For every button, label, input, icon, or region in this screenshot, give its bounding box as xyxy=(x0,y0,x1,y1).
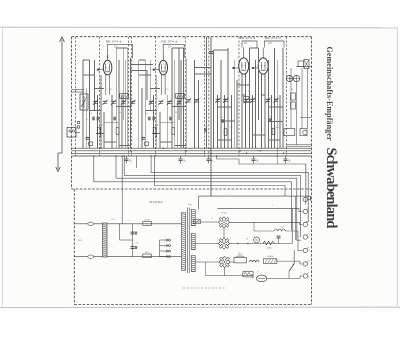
electrolytic capacitor xyxy=(254,237,260,243)
wire antenna jog xyxy=(58,152,62,154)
stage box dashed edge xyxy=(131,37,133,156)
svg-text:C=: C= xyxy=(244,41,248,45)
junction dots xyxy=(93,155,95,157)
terminal b xyxy=(303,209,307,213)
svg-text:Schwabenland: Schwabenland xyxy=(323,148,339,229)
output transformer circles xyxy=(286,75,292,81)
trimmer capacitor xyxy=(111,100,116,105)
headphone jack boxes xyxy=(298,61,304,67)
decoupling capacitor xyxy=(284,156,288,164)
coupling capacitor xyxy=(148,117,151,121)
stage 2 wiring xyxy=(139,48,186,148)
trimmer capacitor xyxy=(273,98,278,103)
trimmer capacitor xyxy=(149,100,154,105)
hatched resistor xyxy=(120,94,129,99)
resistor xyxy=(224,129,227,136)
trimmer capacitor xyxy=(215,98,220,103)
wire xyxy=(205,262,207,276)
wire xyxy=(195,221,218,223)
svg-text:Gemeinschafts-Empfänger: Gemeinschafts-Empfänger xyxy=(325,47,334,141)
stage box dashed edge xyxy=(155,37,157,156)
decoupling capacitor xyxy=(252,156,256,164)
wire stub xyxy=(136,156,138,168)
terminal a xyxy=(303,197,307,201)
earth lead wire xyxy=(57,153,59,169)
svg-text:2M: 2M xyxy=(100,125,103,127)
outer dashed border top xyxy=(72,36,312,38)
antenna lead wire xyxy=(61,40,63,154)
wire xyxy=(291,209,293,244)
svg-text:RE 074 d: RE 074 d xyxy=(240,36,256,40)
decoupling capacitor xyxy=(179,156,183,164)
trimmer capacitor xyxy=(102,100,107,105)
trimmer capacitor xyxy=(223,98,228,103)
svg-text:b: b xyxy=(164,241,165,243)
page scan edge left xyxy=(2,27,4,308)
wire xyxy=(224,268,226,276)
svg-text:B₂: B₂ xyxy=(183,160,186,163)
trimmer capacitor xyxy=(244,98,249,103)
svg-text:B₂: B₂ xyxy=(256,160,259,163)
wire xyxy=(278,238,280,244)
coil loop xyxy=(155,134,156,138)
page scan edge bottom xyxy=(0,306,400,308)
wire xyxy=(267,277,300,279)
terminal f xyxy=(303,262,307,266)
svg-text:Gl.102: Gl.102 xyxy=(221,213,227,215)
svg-text:RE 074 d: RE 074 d xyxy=(162,39,178,43)
bias resistor box xyxy=(243,272,253,277)
dial lamp xyxy=(257,275,267,282)
rectifier bridge G1 xyxy=(218,217,229,228)
stage box dashed edge xyxy=(99,37,101,156)
trimmer capacitor xyxy=(194,98,199,103)
bus lines bottom of RF section xyxy=(72,147,311,149)
rectifier box Gl xyxy=(143,222,152,226)
wire xyxy=(195,261,219,263)
wire xyxy=(72,91,84,93)
trimmer capacitor xyxy=(265,98,270,103)
antenna arrow up xyxy=(60,37,65,42)
svg-text:2M: 2M xyxy=(156,125,159,127)
stage 3-4 wiring xyxy=(195,37,283,196)
outer dashed border left upper xyxy=(71,37,73,189)
switch contact arrow xyxy=(289,264,294,272)
svg-text:4: 4 xyxy=(271,205,272,207)
mains wires xyxy=(74,223,181,225)
capacitor xyxy=(86,137,90,139)
wire xyxy=(206,275,254,277)
terminal c xyxy=(303,222,307,226)
coupling capacitor xyxy=(92,117,95,121)
terminal elbow wires xyxy=(292,196,311,278)
wire xyxy=(310,196,312,201)
stage box dashed edge xyxy=(286,37,288,156)
trimmer capacitor xyxy=(158,100,163,105)
jack circle xyxy=(303,130,307,134)
capacitor xyxy=(141,137,145,139)
trimmer capacitor xyxy=(93,100,98,105)
tube V4 RE074d xyxy=(252,48,269,95)
svg-text:C=: C= xyxy=(269,41,273,45)
capacitor xyxy=(221,119,224,123)
earth arrow down xyxy=(56,167,60,172)
wire xyxy=(286,78,300,80)
IF coupling box xyxy=(244,97,250,103)
choke row3 xyxy=(249,260,259,262)
svg-text:ZF 130 kHz: ZF 130 kHz xyxy=(149,200,163,204)
svg-text:RE 074 d: RE 074 d xyxy=(265,36,281,40)
interstage coupling wires xyxy=(130,65,152,101)
decoupling capacitor xyxy=(207,156,211,164)
trimmer capacitor xyxy=(250,98,255,103)
svg-text:2x5000: 2x5000 xyxy=(267,256,275,258)
rectifier bridge G2 xyxy=(218,238,229,249)
resistor xyxy=(291,93,296,100)
rectifier section frame wires xyxy=(199,195,311,197)
capacitor blob xyxy=(135,246,137,249)
wire antenna coupling xyxy=(72,89,84,91)
trimmer capacitor xyxy=(130,100,135,105)
svg-text:6: 6 xyxy=(257,271,258,273)
dashed sub-border xyxy=(183,287,225,289)
stage 1 wiring xyxy=(83,48,130,148)
svg-text:30: 30 xyxy=(246,239,248,241)
trimmer capacitor xyxy=(121,100,126,105)
wire to output xyxy=(300,117,311,119)
wire xyxy=(296,66,311,68)
stage box dashed edge xyxy=(75,37,77,156)
fuse holder bottom xyxy=(88,255,94,258)
trimmer capacitor xyxy=(186,98,191,103)
stage box dashed edge xyxy=(184,37,186,156)
wire xyxy=(230,243,293,245)
wire xyxy=(295,196,297,240)
terminal g xyxy=(303,274,307,278)
svg-text:Netz: Netz xyxy=(188,203,192,206)
stage box dashed edge xyxy=(208,37,210,156)
coil box xyxy=(284,129,295,136)
terminal e xyxy=(303,248,307,252)
hatched resistor xyxy=(176,94,185,99)
svg-text:d: d xyxy=(164,252,165,254)
wire drop to terminal xyxy=(305,164,307,197)
tube V2 RE074d xyxy=(153,55,168,95)
stage box dashed edge xyxy=(238,37,240,156)
svg-text:W: W xyxy=(291,89,293,91)
grid cap box stage 2 xyxy=(163,44,184,58)
smoothing caps xyxy=(119,224,121,240)
hatched resistor row3 xyxy=(263,259,277,264)
wire xyxy=(288,272,290,279)
fuse Si xyxy=(143,254,152,258)
output choke box xyxy=(234,257,246,263)
wire to PSU xyxy=(121,156,123,224)
svg-text:g: g xyxy=(308,276,309,278)
svg-text:1: 1 xyxy=(127,220,128,222)
resistor xyxy=(172,128,175,135)
resistor box xyxy=(89,142,93,145)
trimmer capacitor xyxy=(177,100,182,105)
capacitor xyxy=(113,117,116,121)
grid resistor xyxy=(97,127,100,134)
grid resistor xyxy=(153,127,156,134)
wire xyxy=(195,243,218,245)
coil loop xyxy=(100,134,101,138)
terminal d xyxy=(303,235,307,239)
svg-text:RE 074 d: RE 074 d xyxy=(106,39,122,43)
tube V3 RE074d xyxy=(232,48,249,95)
wire xyxy=(254,230,274,232)
stage box dashed edge xyxy=(128,37,130,156)
voltage selector terminals xyxy=(160,239,171,258)
dashed divider RF/power xyxy=(72,188,312,190)
rectifier bridge G3 xyxy=(219,256,230,267)
svg-text:Gl.102: Gl.102 xyxy=(144,219,151,221)
choke coils row1 xyxy=(274,229,285,231)
capacitor blob xyxy=(135,232,137,235)
svg-text:B₂: B₂ xyxy=(129,160,132,163)
connector box xyxy=(67,128,76,138)
volume potentiometer xyxy=(80,94,88,110)
svg-text:c: c xyxy=(308,224,309,226)
page scan edge top xyxy=(0,26,397,29)
wire xyxy=(293,250,295,264)
trimmer capacitor xyxy=(167,100,172,105)
heater dropper element xyxy=(103,223,107,257)
input sockets xyxy=(77,121,80,124)
capacitor xyxy=(169,117,172,121)
svg-text:B₂: B₂ xyxy=(288,160,291,163)
tube V1 RE074d xyxy=(97,55,112,95)
outer dashed border left lower xyxy=(73,189,75,305)
outer dashed border bottom xyxy=(74,304,311,306)
wire xyxy=(76,132,80,134)
resistor box xyxy=(145,142,149,145)
page scan edge right xyxy=(396,28,398,308)
svg-text:5000: 5000 xyxy=(267,247,273,249)
wire xyxy=(253,222,255,231)
stage box dashed edge xyxy=(204,37,206,156)
mains transformer Tr xyxy=(182,208,196,274)
wire xyxy=(198,196,200,209)
wire xyxy=(230,261,234,263)
coupling capacitor xyxy=(97,117,100,121)
svg-text:C=: C= xyxy=(168,44,172,48)
svg-text:Dr 2: Dr 2 xyxy=(238,252,242,255)
capacitor xyxy=(209,52,213,54)
svg-text:B₂: B₂ xyxy=(211,160,214,163)
capacitor xyxy=(204,128,207,132)
capacitor xyxy=(269,118,272,122)
capacitor xyxy=(131,232,135,234)
svg-text:W: W xyxy=(248,91,250,93)
grid cap box stage 1 xyxy=(107,44,132,58)
svg-text:d: d xyxy=(308,237,309,239)
svg-text:c: c xyxy=(165,247,166,249)
resistor zigzag xyxy=(263,241,274,245)
interconnect staircase wires xyxy=(94,156,308,240)
svg-text:W 1: W 1 xyxy=(111,219,114,221)
wire xyxy=(277,260,300,262)
coil box xyxy=(300,129,307,136)
svg-text:2x1: 2x1 xyxy=(135,243,138,245)
wire xyxy=(252,276,254,279)
wire HT output xyxy=(230,221,296,223)
wire xyxy=(223,228,225,238)
grid cap box stage 4 xyxy=(265,41,285,48)
wire xyxy=(285,230,296,232)
resistor xyxy=(116,128,119,135)
capacitor xyxy=(152,117,155,121)
fuse on transformer secondary xyxy=(194,220,201,224)
capacitor xyxy=(131,247,135,249)
outer dashed border right xyxy=(311,37,313,305)
right column wires xyxy=(286,68,311,146)
svg-text:1M: 1M xyxy=(230,127,233,129)
resistor xyxy=(291,102,296,109)
decoupling capacitor xyxy=(125,156,129,164)
resistor xyxy=(272,128,275,135)
capacitor xyxy=(277,236,281,238)
fuse holder top xyxy=(88,222,94,225)
grid cap box stage 3 xyxy=(242,41,257,48)
